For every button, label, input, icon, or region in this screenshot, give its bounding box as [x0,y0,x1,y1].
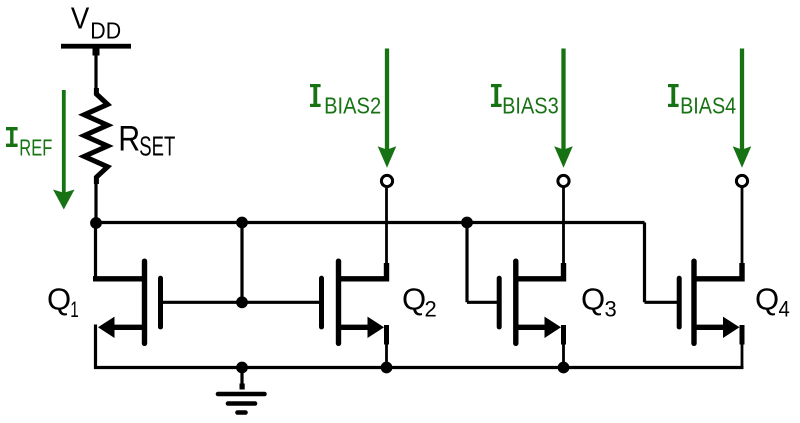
svg-text:REF: REF [19,135,52,161]
svg-text:BIAS2: BIAS2 [324,93,381,119]
svg-text:Q: Q [581,282,605,317]
svg-text:BIAS3: BIAS3 [502,93,559,119]
svg-text:DD: DD [90,17,121,43]
svg-text:V: V [71,1,90,36]
svg-text:BIAS4: BIAS4 [680,93,736,119]
svg-text:Q: Q [402,282,426,317]
svg-text:R: R [118,119,140,158]
svg-text:Q: Q [47,282,71,317]
svg-text:2: 2 [425,297,437,322]
svg-text:4: 4 [779,297,790,322]
svg-text:SET: SET [139,131,175,162]
svg-text:Q: Q [755,282,779,317]
svg-text:3: 3 [605,297,617,322]
svg-text:1: 1 [70,297,79,322]
